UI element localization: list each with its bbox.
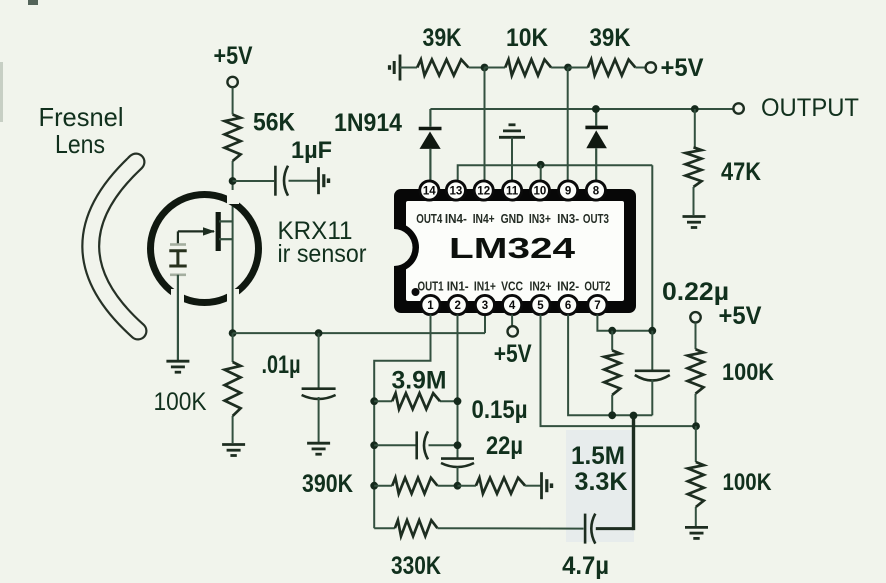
node 100K divider junction	[692, 422, 700, 430]
svg-text:VCC: VCC	[501, 280, 523, 294]
pyroelectric element plate (faint top)	[170, 243, 186, 246]
+5V terminal (right divider)	[690, 312, 700, 322]
node 3.9M right	[454, 397, 462, 405]
svg-text:12: 12	[477, 186, 490, 198]
wire pyro element to ground	[177, 275, 179, 361]
svg-text:14: 14	[423, 186, 436, 198]
svg-text:9: 9	[565, 186, 571, 198]
resistor 3.9M	[392, 393, 440, 409]
wire 10K to node	[551, 67, 568, 69]
wire OUTPUT line	[430, 108, 738, 110]
wire 22u to 390K row	[457, 467, 459, 486]
node riser/pin-6 rail	[630, 412, 638, 420]
svg-text:47K: 47K	[721, 158, 761, 186]
svg-text:IN2+: IN2+	[530, 280, 552, 294]
wire 100K to ground	[695, 507, 697, 526]
capacitor 22u	[441, 457, 474, 460]
svg-text:IN3-: IN3-	[557, 212, 579, 226]
resistor 100K (sensor load)	[225, 362, 241, 416]
wire node to 100K	[232, 333, 234, 362]
node .01uF junction	[315, 329, 323, 337]
resistor 39K (right)	[588, 60, 636, 76]
svg-text:Lens: Lens	[55, 129, 105, 159]
wire terminal to 100K	[695, 323, 697, 350]
svg-text:10K: 10K	[506, 24, 548, 52]
svg-text:IN4-: IN4-	[445, 212, 467, 226]
Fresnel lens (curved crescent)	[91, 162, 138, 331]
svg-text:390K: 390K	[302, 470, 353, 498]
svg-text:+5V: +5V	[214, 42, 253, 70]
wire node to 1uF	[233, 180, 274, 182]
wire 56K to drain node	[232, 161, 234, 222]
svg-text:100K: 100K	[722, 359, 775, 386]
wire source stub	[219, 238, 233, 240]
svg-text:1µF: 1µF	[291, 137, 332, 164]
transistor KRX11 channel bar	[216, 212, 221, 251]
ground (above pin 11, inverted)	[509, 123, 516, 126]
node source/bus junction	[229, 329, 237, 337]
node 390K/3.3K junction	[454, 482, 462, 490]
wire pin3 stub	[484, 315, 486, 333]
node 0.15u right	[454, 441, 462, 449]
resistor 100K (lower right)	[688, 462, 704, 507]
node drain/1uF junction	[229, 177, 237, 185]
resistor 39K (left)	[417, 60, 468, 76]
svg-text:IN1-: IN1-	[447, 280, 469, 294]
svg-text:11: 11	[506, 186, 519, 198]
ground (below right divider)	[685, 526, 708, 529]
svg-text:OUT3: OUT3	[583, 212, 609, 226]
ground (below .01uF)	[307, 442, 330, 445]
wire pin 13 up	[458, 165, 653, 182]
wire pin 6 down and right	[568, 315, 652, 416]
capacitor 0.22u	[635, 369, 670, 372]
ground (sideways, after 1uF)	[317, 167, 320, 194]
wire 100K to node	[695, 394, 697, 426]
scan artifact left edge	[0, 62, 3, 122]
wire pin 5 down and right	[541, 315, 697, 427]
node 39K/10K junction	[481, 64, 489, 72]
node 3.9M left	[370, 397, 378, 405]
scan artifact pale region (right-bottom)	[566, 430, 634, 542]
svg-text:3.3K: 3.3K	[575, 468, 628, 496]
wire 4.7u to riser	[596, 527, 634, 530]
svg-text:IN1+: IN1+	[474, 280, 496, 294]
ground (below 100K)	[222, 443, 245, 446]
svg-text:2: 2	[454, 300, 460, 312]
capacitor 1uF	[274, 166, 277, 196]
wire drain down / source down (vertical through sensor)	[232, 222, 234, 333]
wire 100K to ground	[232, 416, 234, 443]
op-amp U1 top pins 14-8	[420, 181, 439, 200]
resistor (390K row right)	[476, 478, 525, 494]
wire to right resistor	[458, 485, 476, 487]
wire 47K to ground	[693, 187, 695, 215]
svg-text:GND: GND	[501, 212, 524, 226]
svg-text:4: 4	[509, 300, 516, 312]
wire bus (source to pin 3)	[233, 332, 485, 334]
pyroelectric element plate (faint bottom)	[170, 273, 186, 276]
capacitor .01uF	[302, 387, 336, 390]
resistor 330K	[395, 520, 438, 536]
svg-text:0.15µ: 0.15µ	[472, 396, 528, 424]
wire pin 4 stub	[511, 315, 513, 327]
svg-text:+5V: +5V	[661, 54, 704, 82]
op-amp U1 LM324 body	[394, 189, 636, 313]
capacitor 4.7u	[584, 514, 587, 544]
svg-text:10: 10	[534, 186, 547, 198]
op-amp U1 pin-1 indicator dot	[412, 288, 420, 296]
wire gnd to pin 11	[511, 137, 513, 182]
ground (below 47K)	[683, 215, 706, 218]
svg-text:OUT1: OUT1	[418, 280, 444, 294]
svg-text:22µ: 22µ	[486, 432, 523, 460]
wire gnd to 39K	[400, 67, 417, 69]
node 390K left	[370, 482, 378, 490]
resistor 100K (upper right)	[688, 349, 704, 394]
wire OUTPUT node to 47K	[694, 109, 696, 147]
+5V terminal (top-left)	[227, 77, 237, 87]
resistor 47K	[686, 147, 702, 187]
scan artifact top edge	[28, 0, 38, 5]
svg-text:39K: 39K	[590, 24, 631, 52]
+5V terminal (pin 4)	[508, 326, 518, 336]
wire 330K to 4.7u	[437, 527, 583, 529]
svg-text:1.5M: 1.5M	[571, 442, 625, 470]
wire cap bottom lead	[651, 380, 653, 415]
ground (sideways, left of 39K)	[388, 65, 391, 70]
svg-text:IN4+: IN4+	[473, 212, 495, 226]
resistor 390K	[392, 478, 437, 494]
+5V terminal (top row)	[646, 62, 656, 72]
gate lead with arrow	[178, 230, 214, 232]
wire pin 9 to 10K/39K node	[567, 68, 569, 183]
OUTPUT terminal	[733, 103, 743, 113]
wire 39K to +5V terminal	[635, 67, 645, 69]
wire 330K corner	[374, 527, 395, 529]
wire 0.15u to column	[429, 444, 458, 446]
svg-text:.01µ: .01µ	[262, 351, 301, 379]
svg-text:5: 5	[537, 300, 544, 312]
wire cap top lead	[651, 331, 653, 371]
pyroelectric element (I-beam)	[169, 249, 186, 252]
svg-text:1: 1	[427, 300, 434, 312]
wire resistor to sideways ground	[525, 485, 540, 487]
node D2/OUTPUT junction	[592, 105, 600, 113]
wire 39K to node	[469, 67, 485, 69]
ground (sideways, 390K row)	[540, 472, 543, 499]
wire .01uF to ground	[318, 397, 320, 442]
op-amp U1 bottom pins 1-7	[421, 295, 440, 314]
wire 390K leads	[374, 485, 392, 487]
svg-text:8: 8	[593, 186, 600, 198]
wire pin 12 to 39K/10K node	[484, 68, 486, 183]
wire to 0.15u	[374, 444, 415, 446]
wire gate to pyro element	[177, 231, 179, 245]
KRX11 sensor body (circle)	[151, 195, 259, 303]
wire node to 10K	[485, 67, 506, 69]
svg-text:39K: 39K	[423, 24, 462, 52]
node pin7-rail/cap column	[648, 327, 656, 335]
svg-text:100K: 100K	[154, 388, 207, 416]
svg-text:OUT4: OUT4	[416, 212, 442, 226]
node pin7-rail/resistor	[608, 327, 616, 335]
resistor (pin7 to pin6 rail)	[604, 350, 620, 395]
capacitor 0.15u	[415, 431, 418, 459]
svg-text:7: 7	[594, 300, 600, 312]
wire right-side vertical down to pin7 rail	[651, 165, 653, 330]
svg-text:56K: 56K	[253, 109, 295, 137]
svg-text:+5V: +5V	[494, 340, 532, 368]
resistor 56K	[225, 115, 241, 162]
svg-text:3.9M: 3.9M	[392, 367, 447, 395]
wire pin 7 down and right	[597, 315, 652, 331]
wire 3.9M leads	[374, 400, 392, 402]
wire riser up to pin-6 rail	[632, 415, 635, 530]
svg-text:OUT2: OUT2	[584, 280, 610, 294]
wire bus to .01uF	[318, 333, 320, 389]
diode D1 1N914 (left)	[429, 109, 431, 127]
svg-text:330K: 330K	[391, 552, 441, 580]
svg-text:IN3+: IN3+	[529, 212, 551, 226]
resistor 10K	[505, 60, 551, 76]
wire pin 10 up	[540, 165, 542, 182]
node pin 10 feedback junction	[537, 161, 545, 169]
wire resistor top lead	[611, 331, 613, 351]
wire 1uF to ground	[289, 180, 318, 182]
node 47K/OUTPUT junction	[691, 105, 699, 113]
svg-text:3: 3	[482, 300, 488, 312]
svg-text:OUTPUT: OUTPUT	[761, 94, 859, 122]
svg-text:Fresnel: Fresnel	[39, 102, 124, 132]
wire node to 39K right	[568, 67, 588, 69]
wire +5V to 56K	[232, 87, 234, 114]
svg-text:ir sensor: ir sensor	[278, 240, 367, 268]
ground (sensor element)	[166, 360, 189, 363]
svg-text:IN2-: IN2-	[557, 280, 579, 294]
node resistor/pin6-rail	[608, 411, 616, 419]
svg-text:6: 6	[565, 300, 571, 312]
diode D2 1N914 (right)	[595, 109, 597, 126]
svg-text:100K: 100K	[723, 469, 773, 496]
wire resistor bottom lead	[611, 395, 613, 415]
wire pin 2 down	[457, 315, 459, 459]
svg-text:4.7µ: 4.7µ	[562, 552, 609, 580]
svg-text:1N914: 1N914	[334, 109, 402, 137]
node 0.15u left	[370, 441, 378, 449]
svg-text:+5V: +5V	[719, 302, 762, 330]
wire pin 1 to feedback column	[374, 315, 430, 529]
svg-text:13: 13	[450, 186, 463, 198]
wire node to lower 100K	[695, 426, 697, 462]
wire drain stub	[219, 220, 233, 222]
node 10K/39K junction	[564, 64, 572, 72]
svg-text:LM324: LM324	[449, 233, 575, 265]
